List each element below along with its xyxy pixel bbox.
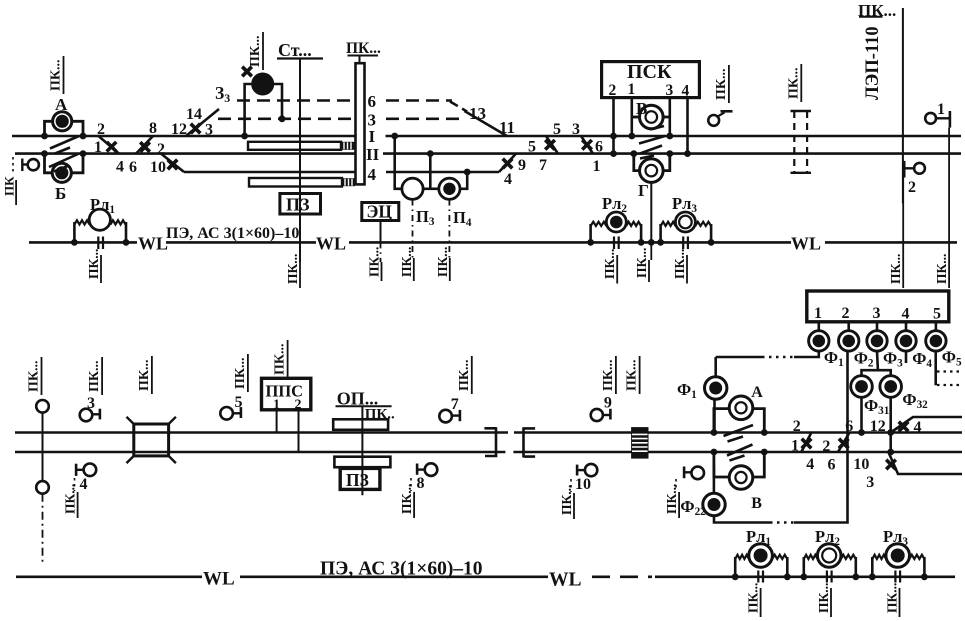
picket label ПК bottom far left [27, 357, 42, 395]
svg-text:ПК...: ПК... [367, 247, 382, 277]
svg-text:ПЗ: ПЗ [286, 195, 310, 215]
svg-text:З3: З3 [215, 83, 230, 105]
svg-text:8: 8 [149, 120, 157, 137]
crossing support circle bottom [36, 481, 49, 494]
wire: single track line 1 [15, 431, 508, 434]
Ф22 link dotted [770, 521, 794, 524]
svg-text:4: 4 [80, 476, 88, 493]
anchor 8 [425, 463, 438, 476]
feeder circle 5 [926, 331, 946, 351]
wire: main track I contact wire, left part [12, 135, 356, 138]
anchor 1 guy line down [948, 128, 950, 262]
picket label ПК anchor 5 [233, 354, 248, 392]
jumper wires I-II no.5 [546, 136, 558, 154]
Ф1 link solid part [716, 356, 762, 359]
feeder 5 stub [935, 322, 938, 331]
ЭЦ drop to WL [380, 221, 382, 243]
arrester Рл1 [89, 209, 110, 230]
jumper2 bottom [838, 433, 850, 453]
box ЭЦ [362, 203, 399, 221]
svg-text:1: 1 [94, 139, 102, 156]
pin4 drop [686, 98, 689, 154]
feeder 1 stub [817, 322, 820, 331]
svg-text:9: 9 [518, 157, 526, 174]
svg-text:ПК...: ПК... [435, 247, 450, 277]
wire: main track II contact wire, left part [15, 152, 356, 155]
svg-text:I: I [369, 127, 376, 146]
feeder П3 circle [402, 178, 423, 199]
crossing support circle top [36, 400, 49, 413]
picket label ПК bridge [137, 356, 152, 394]
branch from wire I up to drive З3 [186, 109, 219, 136]
svg-text:6: 6 [828, 457, 836, 474]
anchor of wire at left edge [28, 159, 39, 170]
Ф4 tail [905, 351, 908, 363]
dash-dot to WL [42, 494, 44, 563]
svg-text:ПК...: ПК... [664, 484, 679, 514]
jumper wires I-II no.6 [581, 136, 593, 154]
svg-text:2: 2 [97, 121, 105, 138]
svg-text:Ф1: Ф1 [677, 380, 697, 401]
support axis crossing lines [42, 413, 44, 481]
hatched end block 2 [342, 178, 355, 186]
svg-text:ПК: ПК [2, 176, 17, 196]
Ф1 link to feeder 1 [794, 351, 819, 357]
svg-text:WL: WL [138, 234, 168, 254]
anchor 4 [84, 464, 97, 477]
anchor 2 guy line down [902, 178, 904, 263]
dashed drop from П3 [412, 200, 414, 259]
svg-text:3: 3 [666, 82, 674, 99]
svg-text:ПЭ, АС 3(1×60)–10: ПЭ, АС 3(1×60)–10 [166, 225, 299, 242]
dotted feeder line a [937, 370, 962, 372]
wire: turnout 13 dashed diagonal from track 6 to track 3 [450, 102, 467, 112]
svg-text:WL: WL [316, 234, 346, 254]
svg-text:А: А [751, 384, 763, 401]
switch blades of А and Б [49, 136, 79, 172]
picket label ПК anchor 9 a [601, 356, 616, 394]
feeder 3 stub [876, 322, 879, 331]
link П3-П4 [423, 188, 439, 191]
Ф1 link dotted part [762, 356, 794, 359]
dashed drop from П4 [448, 200, 450, 259]
svg-text:Ф1: Ф1 [824, 348, 844, 369]
ППС pin2 drop [298, 410, 300, 452]
Г ground drop to WL [650, 182, 652, 242]
svg-text:ПК...: ПК... [602, 249, 617, 279]
feeder circle 3 [867, 331, 887, 351]
svg-text:2: 2 [908, 179, 916, 196]
svg-text:Ст...: Ст... [278, 40, 312, 60]
svg-text:6: 6 [595, 139, 603, 156]
jumper track4 to wire II [499, 154, 516, 172]
cross 6 [582, 140, 592, 150]
svg-text:4: 4 [368, 165, 377, 184]
wire: station track 3 (dashed) [218, 118, 356, 121]
anchor 3 [80, 409, 93, 422]
anchor 7 [439, 410, 452, 423]
svg-text:ПК...: ПК... [934, 254, 949, 284]
Ф1 riser [714, 357, 717, 377]
svg-text:5: 5 [553, 121, 561, 138]
disconnector В bottom [714, 452, 729, 477]
platform bar upper [333, 419, 388, 430]
svg-text:4: 4 [682, 83, 690, 100]
svg-text:1: 1 [814, 305, 822, 322]
svg-text:ПК...: ПК... [285, 254, 300, 284]
svg-text:ПК...: ПК... [399, 484, 414, 514]
Ф5 tail [934, 351, 937, 385]
circle Ф22 [703, 493, 725, 515]
disconnector Б (motor drive circle) [45, 154, 53, 173]
svg-text:6: 6 [129, 159, 137, 176]
jumper1 bottom [801, 433, 811, 453]
disconnector В [640, 105, 664, 129]
station axis vertical [299, 59, 301, 263]
feeder circle Ф31 [851, 376, 873, 398]
feeder circle Ф32 [880, 376, 902, 398]
В leg to Ф22 [713, 465, 716, 493]
svg-text:ПЭ, АС 3(1×60)–10: ПЭ, АС 3(1×60)–10 [320, 559, 483, 580]
Ф3 split bracket [862, 370, 891, 375]
picket label ПК anchor 10 [573, 493, 575, 519]
picket label ПК mid right [786, 64, 801, 102]
arrester Рл2 [606, 212, 626, 232]
drive arrow mark [242, 67, 252, 77]
anchor at switch [691, 467, 704, 480]
svg-text:WL: WL [549, 570, 582, 591]
switch drive З3 (filled circle) [253, 74, 273, 94]
svg-text:Б: Б [55, 184, 66, 203]
svg-text:3: 3 [205, 122, 213, 139]
svg-text:3: 3 [873, 305, 881, 322]
anchor 10 [585, 464, 597, 476]
switch blades А/В bottom [724, 425, 754, 461]
picket label ПК above ППС [273, 340, 288, 378]
picket label ПК anchor 7 [457, 356, 472, 394]
switch blades В/Г [639, 126, 665, 159]
jumper wire I to II no.2-1 [99, 136, 120, 154]
picket label ПК at left edge [15, 180, 17, 205]
svg-text:14: 14 [186, 106, 202, 123]
ППС pin1 drop [276, 410, 278, 433]
svg-text:4: 4 [116, 159, 124, 176]
road overbridge symbol [134, 424, 169, 456]
svg-text:1: 1 [791, 438, 799, 455]
svg-text:5: 5 [528, 139, 536, 156]
svg-text:7: 7 [539, 157, 547, 174]
disconnector А bottom [714, 409, 729, 433]
branch 4 to upper right line [891, 417, 962, 433]
feeder terminal box [807, 291, 949, 322]
arrester Рл3 [675, 212, 695, 232]
dotted feeder line b [937, 384, 962, 386]
svg-text:ПК...: ПК... [346, 40, 381, 57]
svg-text:WL: WL [791, 234, 821, 254]
svg-text:10: 10 [150, 159, 166, 176]
anchor overlap vertical bar [356, 63, 365, 184]
Ф31 drop to line1 [860, 397, 863, 432]
svg-text:6: 6 [368, 92, 377, 111]
picket label ПК right of ПСК [714, 65, 729, 103]
svg-text:Ф32: Ф32 [902, 390, 928, 411]
jumper wire I to II no.8-2 [136, 136, 153, 154]
svg-text:Ф3: Ф3 [883, 349, 903, 370]
disconnector А (motor drive circle) [45, 121, 53, 136]
platform bar at track 4 [249, 178, 342, 187]
picket label ПК above З3 [248, 32, 263, 70]
anchor 9 [591, 409, 603, 421]
feeder circle 2 [839, 331, 859, 351]
box ПЗ [280, 194, 321, 215]
svg-text:Г: Г [638, 181, 649, 200]
Ф32 drop to line2 [889, 397, 892, 452]
svg-text:3: 3 [866, 474, 874, 491]
svg-text:12: 12 [171, 121, 187, 138]
svg-text:Рл1: Рл1 [90, 195, 115, 216]
disconnector Г [640, 159, 664, 183]
feeder П3 connection [395, 136, 402, 189]
svg-text:4: 4 [914, 419, 922, 436]
feeder 2 stub [847, 322, 850, 331]
hatched crossing block [631, 427, 648, 459]
section insulator cross 3 [191, 124, 201, 134]
Ф22 bottom link solid [714, 516, 770, 523]
svg-text:ПК...: ПК... [634, 248, 649, 278]
section insulator cross 2 [140, 142, 150, 152]
cross 5 [545, 140, 555, 150]
feeder circle 1 [809, 331, 829, 351]
box ППС [262, 378, 311, 410]
WL supply line [29, 241, 137, 244]
feeder П4 connection [460, 172, 467, 189]
wire: main track II contact wire, right part [383, 152, 961, 155]
svg-text:WL: WL [203, 569, 235, 590]
svg-text:7: 7 [451, 396, 459, 413]
arrester Рл2 bottom [817, 544, 841, 568]
svg-text:8: 8 [417, 475, 425, 492]
jumper wire II to track 4 [161, 154, 184, 172]
picket label ПК anchor 4 [77, 492, 79, 518]
svg-text:ПЗ: ПЗ [346, 470, 369, 490]
svg-text:1: 1 [628, 81, 636, 98]
ОП axis vertical [361, 406, 363, 495]
svg-text:Ф2: Ф2 [854, 349, 874, 370]
circle Ф1 switch side [705, 377, 727, 399]
svg-text:ПСК: ПСК [627, 61, 672, 83]
svg-text:В: В [751, 495, 762, 512]
wire: single track line 2 [15, 451, 505, 454]
svg-text:3: 3 [572, 121, 580, 138]
wire: station track 4 [184, 171, 356, 174]
pin3 drop [668, 98, 671, 136]
wire: turnout 11 diagonal joining track I [465, 111, 508, 136]
platform bar lower [334, 457, 390, 468]
cross 4 branch [899, 422, 909, 432]
box ПСК [602, 62, 700, 98]
svg-text:ПК...: ПК... [559, 485, 574, 515]
section insulator cross 1 [107, 142, 117, 152]
svg-text:4: 4 [806, 456, 814, 473]
picket label ПК anchor 9 b [625, 356, 640, 394]
Ф3 tail [876, 351, 880, 370]
svg-text:ЛЭП-110: ЛЭП-110 [863, 26, 883, 100]
picket label ПК at switch anchor [678, 492, 680, 518]
wire: main track I contact wire, right part [386, 135, 962, 138]
arrester Рл3 bottom [886, 544, 910, 568]
svg-text:ПК...: ПК... [888, 254, 903, 284]
svg-text:II: II [366, 145, 380, 164]
node on wire II [427, 150, 434, 157]
Ф1 drop to line1 [713, 399, 716, 432]
section insulator cross 10 [168, 160, 178, 170]
arrester Рл1 bottom [749, 544, 773, 568]
anchor symbol right of ПСК [708, 115, 719, 126]
svg-text:Ф5: Ф5 [942, 348, 962, 369]
svg-text:Ф31: Ф31 [864, 396, 890, 417]
platform bar at track I [248, 142, 341, 150]
ЛЭП-110 vertical line [902, 8, 904, 203]
svg-text:2: 2 [793, 418, 801, 435]
insulated overlap (air gap) dashed rectangle [791, 110, 812, 112]
svg-text:ПК...: ПК... [816, 583, 831, 613]
Ф22 link riser to feeder 2 [794, 351, 848, 522]
anchor 5 [220, 407, 233, 420]
anchor 2 of contact wire [914, 163, 925, 174]
cross 2 bottom [839, 439, 849, 449]
feeder 4 stub [905, 322, 908, 331]
cross 1 bottom [802, 439, 812, 449]
svg-text:13: 13 [469, 104, 486, 123]
picket label ПК anchor 8 [413, 492, 415, 518]
svg-text:Ф4: Ф4 [912, 349, 932, 370]
svg-text:П3: П3 [416, 207, 435, 228]
svg-text:12: 12 [870, 418, 886, 435]
svg-text:ПК...: ПК... [86, 249, 101, 279]
picket label below station axis [299, 262, 301, 288]
svg-text:ПК...: ПК... [885, 583, 900, 613]
svg-text:2: 2 [609, 82, 617, 99]
pin1 drop [630, 98, 633, 136]
svg-text:ПК...: ПК... [672, 249, 687, 279]
svg-text:4: 4 [504, 171, 512, 188]
cross 3 branch [886, 460, 896, 470]
pin2 drop [612, 98, 615, 154]
svg-text:ПК...: ПК... [399, 247, 414, 277]
svg-text:1: 1 [593, 158, 601, 175]
svg-text:6: 6 [845, 418, 853, 435]
hatched end block [341, 142, 355, 150]
picket label ПК [49, 56, 64, 94]
wire II drop between П3 П4 [429, 154, 432, 189]
picket label ПК anchor 3 [87, 357, 102, 395]
node on track 4 [464, 169, 471, 176]
feeder П4 circle [439, 178, 460, 199]
svg-text:10: 10 [575, 476, 591, 493]
svg-text:ПК...: ПК... [63, 484, 78, 514]
svg-text:5: 5 [933, 306, 941, 323]
svg-text:2: 2 [822, 438, 830, 455]
svg-text:2: 2 [842, 305, 850, 322]
svg-text:П4: П4 [453, 208, 472, 229]
line break bracket right-pointing [484, 428, 497, 457]
svg-text:ПК...: ПК... [746, 583, 761, 613]
node on wire I for feeder П3 [391, 133, 398, 140]
wire: station track 6 (dashed) [237, 99, 356, 102]
box ПЗ bottom [340, 468, 380, 489]
svg-text:4: 4 [902, 306, 910, 323]
svg-text:1: 1 [937, 101, 945, 118]
WL supply line bottom [16, 575, 202, 578]
feeder circle 4 [896, 331, 916, 351]
branch 3 to lower right line [888, 452, 962, 474]
svg-text:11: 11 [499, 118, 515, 137]
cross 9 [503, 159, 513, 169]
svg-text:ЭЦ: ЭЦ [367, 202, 393, 222]
svg-text:10: 10 [853, 456, 869, 473]
line break bracket left-pointing [524, 427, 536, 457]
